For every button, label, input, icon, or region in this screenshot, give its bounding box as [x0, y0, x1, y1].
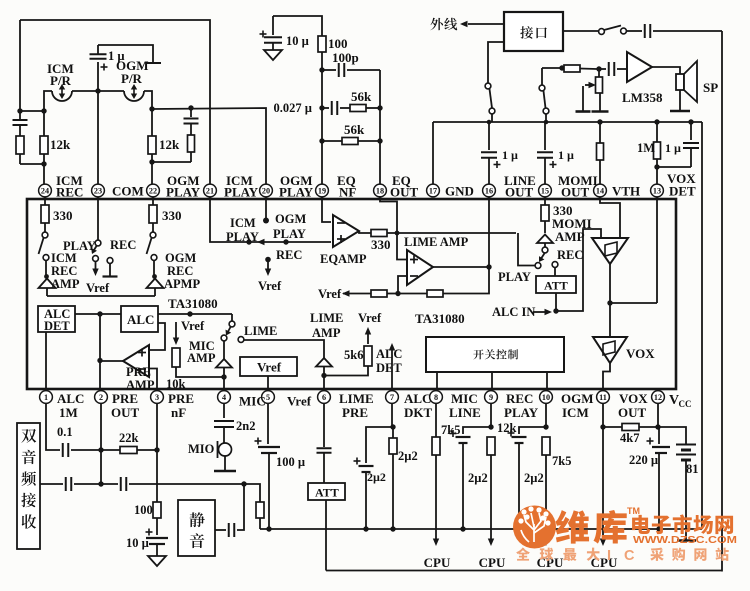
node [283, 239, 288, 244]
svg-text:C: C [624, 548, 635, 564]
node [377, 138, 382, 143]
capacitor 2u2 a [359, 465, 374, 467]
svg-text:LIME AMP: LIME AMP [404, 235, 469, 249]
svg-text:10 µ: 10 µ [126, 536, 149, 550]
resistor 330 ogm [152, 197, 154, 205]
svg-text:DET: DET [44, 319, 70, 333]
right bus riser [701, 122, 703, 529]
vref arrow down [175, 322, 177, 340]
svg-text:Vref: Vref [318, 287, 342, 301]
resistor 100 [318, 36, 326, 52]
svg-text:Vref: Vref [358, 311, 382, 325]
pot ground [599, 93, 601, 112]
pin 19 [316, 184, 329, 197]
pin20 stub [265, 197, 267, 219]
wire alc in riser [556, 229, 601, 311]
resistor lm input [564, 65, 580, 72]
wire mic sw [231, 314, 233, 321]
svg-text:0.1: 0.1 [57, 425, 73, 439]
pin 22 [147, 184, 160, 197]
svg-text:Vref: Vref [86, 281, 110, 295]
plus [101, 66, 108, 68]
node [41, 161, 46, 166]
svg-text:MIC: MIC [239, 394, 266, 409]
svg-text:REC: REC [167, 264, 193, 278]
pin 24 [39, 184, 52, 197]
switch rec contact [552, 262, 558, 268]
resistor 12k OGM [151, 109, 153, 136]
svg-text:OUT: OUT [390, 185, 419, 200]
pin 18 riser [379, 70, 381, 184]
wire [152, 161, 191, 163]
svg-text:EQAMP: EQAMP [320, 252, 367, 266]
resistor OGM branch [188, 135, 195, 152]
wire [20, 110, 44, 112]
wire [398, 293, 427, 295]
svg-text:COM: COM [112, 184, 144, 199]
switch hook [485, 83, 491, 89]
svg-text:15: 15 [541, 187, 549, 196]
pin 11 [597, 391, 610, 404]
mute cap [215, 529, 226, 531]
switch mic [229, 321, 235, 327]
node [656, 526, 661, 531]
node [319, 67, 324, 72]
svg-text:20: 20 [262, 187, 270, 196]
svg-text:OUT: OUT [561, 185, 590, 200]
op-amp PRE AMP [123, 345, 149, 377]
svg-text:17: 17 [429, 187, 437, 196]
bus top [433, 121, 702, 123]
stub [546, 372, 548, 391]
node [688, 119, 693, 124]
node [319, 105, 324, 110]
wire alc det to pin1 [45, 332, 47, 391]
capacitor 10u out [156, 518, 158, 535]
battery 81 [676, 444, 696, 446]
wire play jog [518, 233, 535, 266]
wire lm out [652, 67, 680, 74]
svg-text:PRE: PRE [342, 405, 368, 420]
node [246, 239, 251, 244]
wire alc out [158, 313, 232, 315]
svg-text:ATT: ATT [315, 486, 339, 500]
pin23 switch [97, 197, 99, 240]
capacitor top right [626, 30, 642, 32]
pot arm ground [582, 86, 584, 112]
pin 14 [594, 184, 607, 197]
wire vref box [267, 376, 269, 391]
pin11 to cpu [602, 427, 604, 539]
wire to battery [658, 427, 686, 444]
wire lime line [244, 340, 324, 358]
svg-text:ICM: ICM [230, 216, 256, 230]
svg-text:PLAY: PLAY [273, 227, 306, 241]
op-amp LIME AMP [407, 250, 433, 285]
resistor 1M [656, 122, 658, 142]
svg-text:56k: 56k [344, 122, 365, 137]
svg-text:1: 1 [44, 393, 48, 402]
node [154, 447, 159, 452]
node [395, 291, 400, 296]
mic ground [224, 456, 226, 470]
resistor 22k [101, 449, 120, 451]
resistor 330 momi [544, 197, 546, 205]
pin 18 [374, 184, 387, 197]
wire interface out [488, 42, 504, 83]
resistor 7k5 b [542, 437, 550, 455]
wire minus in [398, 276, 407, 291]
resistor 5k6 [364, 346, 372, 366]
pin 4 [218, 391, 231, 404]
pin13 riser [656, 197, 658, 303]
pin8 riser [435, 403, 437, 437]
OGM head arrow [133, 86, 135, 97]
pin 20 [260, 184, 273, 197]
svg-text:2n2: 2n2 [236, 419, 255, 433]
svg-text:MIC: MIC [451, 391, 478, 406]
node [654, 119, 659, 124]
pin10 to cpu [545, 455, 547, 539]
svg-text:REC: REC [276, 248, 302, 262]
svg-text:I: I [607, 548, 611, 564]
svg-text:22: 22 [149, 187, 157, 196]
op-amp EQAMP [333, 215, 359, 247]
svg-text:OUT: OUT [111, 405, 140, 420]
wire play line [387, 232, 516, 234]
IC TA31080 body [27, 199, 676, 389]
wire [75, 313, 121, 315]
box ATT2 [308, 483, 345, 500]
wire y484 [40, 483, 63, 485]
pin 6 [318, 391, 331, 404]
resistor 12k [487, 437, 495, 455]
node [486, 264, 491, 269]
svg-text:5k6: 5k6 [344, 348, 363, 362]
pin 8 [430, 391, 443, 404]
ground [272, 43, 274, 50]
capacitor left branch [19, 111, 21, 119]
stub [491, 372, 493, 391]
watermark row2 b [650, 548, 664, 561]
node [149, 159, 154, 164]
resistor 100 [153, 502, 161, 518]
svg-text:PLAY: PLAY [226, 230, 259, 244]
resistor 12k ICM [43, 111, 45, 136]
box interface [504, 12, 563, 51]
svg-text:4: 4 [222, 393, 226, 402]
stub [436, 372, 438, 391]
pin19 riser [322, 197, 331, 222]
svg-text:LIME: LIME [339, 391, 374, 406]
svg-text:10: 10 [542, 393, 550, 402]
amp ICM REC AMP [45, 261, 47, 276]
node [597, 119, 602, 124]
node [390, 526, 395, 531]
node [97, 311, 102, 316]
box shuangyinpin [17, 423, 40, 549]
capacitor 10u [272, 16, 274, 35]
switch top right [563, 30, 599, 32]
capacitor 1u vox [690, 122, 692, 140]
svg-text:CPU: CPU [479, 555, 506, 570]
svg-text:GND: GND [445, 184, 474, 199]
pin 21 [204, 184, 217, 197]
label jingyin [190, 512, 205, 527]
ICM head arrow [61, 86, 63, 97]
svg-text:ALC: ALC [404, 391, 431, 406]
node [390, 424, 395, 429]
resistor 4k7 [603, 426, 622, 428]
pin9 to cpu [490, 455, 492, 539]
node [41, 108, 46, 113]
node [395, 231, 400, 236]
node [600, 424, 605, 429]
node [98, 481, 103, 486]
svg-text:19: 19 [318, 187, 326, 196]
capacitor 2u2 c [512, 436, 527, 438]
svg-text:100 µ: 100 µ [276, 455, 305, 469]
svg-text:1 µ: 1 µ [558, 148, 574, 162]
svg-text:24: 24 [41, 187, 49, 196]
node [98, 447, 103, 452]
svg-text:330: 330 [53, 208, 73, 223]
pin 17 [427, 184, 440, 197]
svg-text:1M: 1M [59, 405, 78, 420]
capacitor 2n2 [214, 420, 234, 422]
svg-text:MIO: MIO [188, 442, 215, 456]
wire preamp out [100, 360, 123, 362]
pin 15 [539, 184, 552, 197]
svg-text:CPU: CPU [424, 555, 451, 570]
wire [610, 302, 657, 304]
bus bottom [260, 528, 702, 530]
comparator [592, 238, 628, 264]
svg-text:OGM: OGM [165, 251, 196, 265]
resistor 330 icm [44, 197, 46, 205]
svg-text:APMP: APMP [164, 277, 200, 291]
node [187, 311, 192, 316]
svg-text:100p: 100p [332, 50, 359, 65]
svg-text:9: 9 [489, 393, 493, 402]
switch lime contact [238, 337, 244, 343]
box ALC DET [38, 306, 75, 332]
node [188, 105, 193, 110]
pin 17 riser [432, 122, 434, 184]
svg-text:VTH: VTH [612, 184, 640, 199]
bottom frame [326, 570, 722, 572]
svg-text:6: 6 [322, 393, 326, 402]
svg-text:REC: REC [51, 264, 77, 278]
ICM P/R head [52, 91, 72, 101]
svg-text:16: 16 [485, 187, 493, 196]
svg-text:56k: 56k [351, 89, 372, 104]
svg-text:ICM: ICM [562, 405, 589, 420]
svg-text:LINE: LINE [449, 405, 481, 420]
pin2 riser [100, 403, 102, 484]
node [221, 374, 226, 379]
svg-text:7: 7 [390, 393, 394, 402]
pin 2 [95, 391, 108, 404]
svg-text:2µ2: 2µ2 [367, 470, 386, 484]
svg-text:100: 100 [328, 36, 348, 51]
svg-text:VOX: VOX [626, 346, 655, 361]
vref arrow up [367, 332, 369, 344]
svg-text:0.027 µ: 0.027 µ [274, 101, 312, 115]
pin 13 [651, 184, 664, 197]
resistor vth [599, 122, 601, 143]
svg-text:1M: 1M [637, 141, 655, 155]
svg-text:12k: 12k [50, 137, 71, 152]
pin14 jog [600, 197, 620, 238]
svg-text:81: 81 [686, 462, 699, 476]
wire top loop to pin 21 [20, 20, 210, 184]
svg-text:LIME: LIME [310, 311, 343, 325]
arrow to Vref [95, 262, 97, 272]
svg-text:NF: NF [339, 185, 356, 200]
node [487, 120, 492, 125]
wire [99, 314, 101, 391]
pin12 riser [657, 403, 659, 427]
resistor left branch [16, 136, 24, 154]
svg-text:22k: 22k [119, 431, 139, 445]
pin 7 [386, 391, 399, 404]
svg-text:TM: TM [627, 506, 640, 516]
capacitor OGM branch [190, 108, 192, 117]
capacitor 0.027u [322, 107, 329, 109]
capacitor 2u2 b [456, 436, 471, 438]
svg-text:AMP: AMP [187, 351, 216, 365]
resistor fb1 [371, 290, 387, 297]
svg-text:2µ2: 2µ2 [398, 449, 418, 463]
ground [148, 556, 166, 566]
node [553, 308, 558, 313]
svg-text:AMP: AMP [51, 277, 80, 291]
label jiekou [520, 26, 533, 39]
wire amp join [47, 295, 155, 297]
arrow play [257, 239, 265, 245]
wire [322, 140, 342, 142]
svg-text:11: 11 [599, 393, 607, 402]
pin11 riser [602, 403, 604, 427]
svg-text:REC: REC [506, 391, 533, 406]
pin6 wire [323, 403, 325, 447]
svg-text:ICM: ICM [51, 251, 77, 265]
svg-text:OUT: OUT [618, 405, 647, 420]
wire head riser [44, 91, 52, 111]
box ALC [121, 306, 158, 332]
wire lime out [433, 266, 489, 268]
wire arrow to waixian [468, 23, 504, 25]
svg-text:12: 12 [654, 393, 662, 402]
amp LIME2 [316, 358, 332, 367]
svg-text:1 µ: 1 µ [502, 148, 518, 162]
svg-text:nF: nF [171, 405, 186, 420]
pin5 wire [267, 403, 269, 444]
svg-text:AMP: AMP [555, 229, 585, 244]
capacitor [120, 477, 122, 491]
svg-text:P/R: P/R [50, 73, 72, 88]
svg-text:12k: 12k [159, 137, 180, 152]
wire [273, 16, 322, 36]
svg-text:7k5: 7k5 [552, 454, 571, 468]
capacitor 1u momi [544, 122, 546, 150]
switch ogm [150, 232, 156, 238]
svg-text:PLAY: PLAY [498, 270, 531, 284]
svg-text:330: 330 [162, 208, 182, 223]
wire eq out [359, 231, 371, 233]
svg-text:4k7: 4k7 [620, 431, 639, 445]
capacitor 220u [658, 427, 660, 444]
resistor 7k5 [432, 437, 440, 455]
capacitor 100p [322, 69, 336, 71]
svg-text:330: 330 [371, 237, 391, 252]
svg-text:TA31080: TA31080 [415, 311, 465, 326]
svg-text:TA31080: TA31080 [168, 296, 218, 311]
box Vref [240, 357, 297, 376]
svg-text:PLAY: PLAY [63, 239, 96, 253]
svg-text:PLAY: PLAY [166, 185, 201, 200]
svg-text:DET: DET [376, 361, 402, 375]
resistor fb2 [427, 290, 443, 297]
resistor 10k [172, 348, 180, 367]
wire preamp plus loop [150, 323, 165, 350]
pin9 riser [490, 403, 492, 427]
svg-text:10 µ: 10 µ [286, 34, 309, 48]
node [241, 481, 246, 486]
wire left down [19, 20, 21, 111]
node [149, 106, 154, 111]
wire bottom joint [20, 163, 44, 165]
svg-text:LM358: LM358 [622, 90, 663, 105]
watermark logo [513, 506, 556, 549]
potentiometer [598, 69, 600, 77]
capacitor 100u [258, 446, 280, 448]
svg-text:23: 23 [94, 187, 102, 196]
svg-text:2: 2 [99, 393, 103, 402]
node [460, 526, 465, 531]
wire minus to pin3 [150, 369, 157, 392]
svg-text:3: 3 [155, 393, 159, 402]
svg-text:ALC: ALC [57, 391, 84, 406]
wire [657, 166, 691, 168]
svg-text:OGM: OGM [561, 391, 594, 406]
cap 2u2 body pin7 [392, 427, 394, 438]
wire to pin20 riser [152, 108, 266, 184]
node COM [95, 88, 100, 93]
node [377, 105, 382, 110]
wire rec to att [554, 268, 556, 277]
pin1 wire [46, 403, 60, 450]
svg-text:Vref: Vref [287, 394, 312, 409]
svg-text:WWW.DZSC.COM: WWW.DZSC.COM [633, 534, 737, 546]
wire comp out [609, 264, 611, 303]
capacitor 1u line [488, 122, 490, 150]
switch 2 [541, 68, 543, 85]
switch blade [541, 253, 546, 260]
svg-text:Vref: Vref [257, 360, 282, 375]
pin7 riser [391, 403, 393, 427]
wire corner [244, 484, 260, 502]
svg-text:2µ2: 2µ2 [468, 471, 488, 485]
rec vref arrow [265, 257, 271, 263]
svg-text:PLAY: PLAY [224, 185, 259, 200]
node [488, 424, 493, 429]
resistor 56k [350, 105, 366, 112]
svg-text:PRE: PRE [112, 391, 138, 406]
node [596, 66, 601, 71]
svg-text:REC: REC [110, 238, 136, 252]
